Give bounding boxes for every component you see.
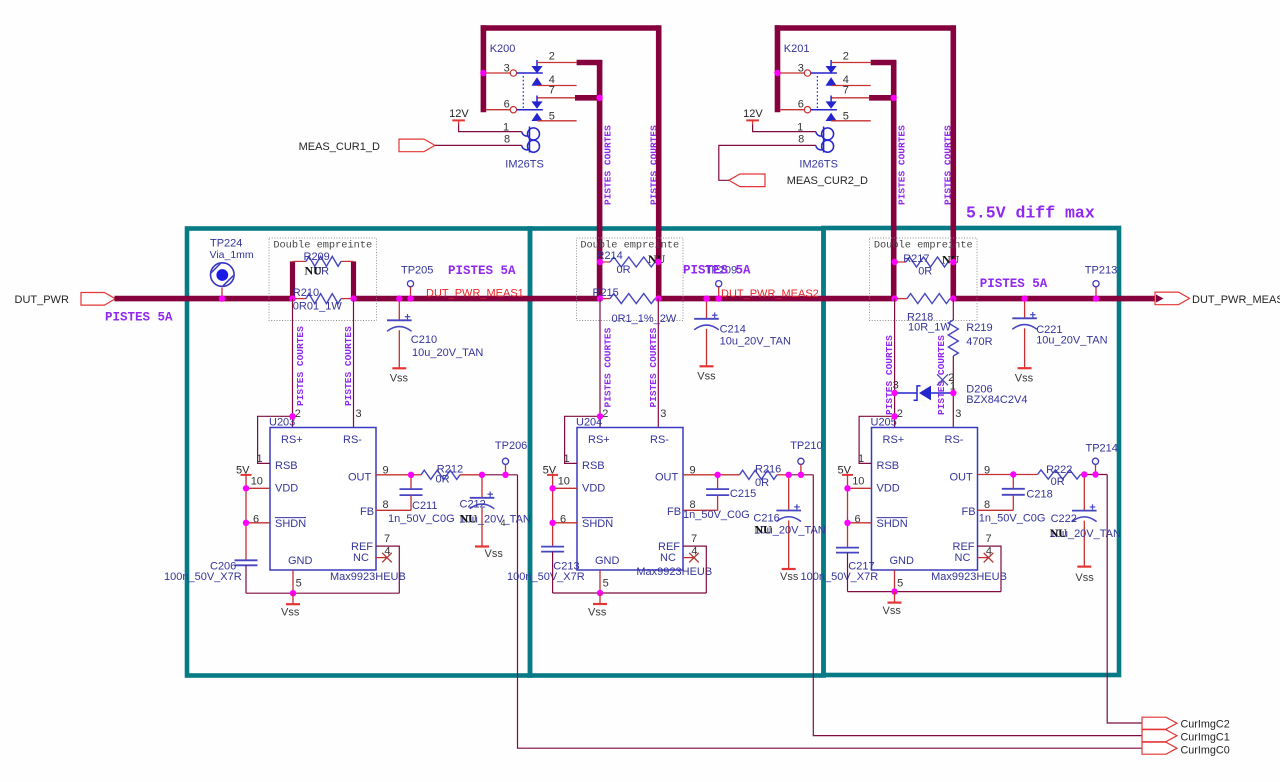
svg-text:6: 6 (560, 513, 566, 525)
svg-text:VDD: VDD (275, 483, 298, 495)
junction R215 left (597, 295, 603, 301)
ground Vss C221 (1018, 367, 1032, 369)
svg-text:3: 3 (798, 63, 804, 75)
svg-text:5: 5 (549, 110, 555, 122)
capacitor C221 (1024, 299, 1026, 319)
relay K201 coil (823, 127, 825, 153)
svg-text:10u_20V_TAN: 10u_20V_TAN (412, 347, 483, 359)
capacitor C210 (398, 299, 400, 321)
wire R219 to D206 (952, 356, 954, 393)
svg-text:R219: R219 (966, 322, 992, 334)
testpoint TP214 (1092, 458, 1098, 464)
svg-text:Max9923HEUB: Max9923HEUB (931, 571, 1007, 583)
svg-text:5: 5 (843, 110, 849, 122)
junction TP210 (798, 472, 804, 478)
svg-text:TP210: TP210 (790, 440, 822, 452)
svg-text:NU: NU (305, 264, 323, 278)
junction GND stage1 (290, 590, 296, 596)
port CurImgC1 (1142, 730, 1177, 742)
junction R210 left (289, 295, 295, 301)
svg-text:FB: FB (962, 506, 976, 518)
ground Vss C222 (1077, 565, 1091, 567)
svg-text:Double empreinte: Double empreinte (874, 240, 973, 252)
junction relay K200 pin3 (480, 70, 486, 76)
wire GND pin stub stage2 (599, 570, 601, 593)
svg-text:Vss: Vss (1075, 572, 1094, 584)
pin NC x-mark stage2 (683, 557, 694, 559)
svg-text:MEAS_CUR2_D: MEAS_CUR2_D (787, 175, 868, 187)
capacitor C212 (NU) (481, 475, 483, 498)
svg-text:100n_50V_X7R: 100n_50V_X7R (507, 571, 585, 583)
capacitor C214 (706, 299, 708, 319)
svg-text:8: 8 (984, 499, 990, 511)
svg-text:7: 7 (691, 533, 697, 545)
zener diode D206 (898, 392, 918, 394)
svg-text:1n_50V_C0G: 1n_50V_C0G (683, 509, 750, 521)
junction C216 (786, 472, 792, 478)
junction SHDN stage3 (844, 520, 850, 526)
wire RS- sense stage1 (353, 299, 355, 428)
junction TP205 (407, 295, 413, 301)
junction R214 right (655, 259, 661, 265)
svg-text:PISTES COURTES: PISTES COURTES (603, 327, 614, 407)
svg-text:5.5V diff max: 5.5V diff max (966, 204, 1095, 223)
relay K201 contact pole1 (830, 60, 832, 66)
wire ground rail stage3 (848, 591, 1002, 593)
relay K200 top bus bar (481, 25, 659, 31)
junction C221 (1021, 295, 1027, 301)
junction TP213 (1093, 295, 1099, 301)
wire SHDN stub stage2 (553, 522, 577, 524)
svg-text:TP213: TP213 (1085, 264, 1117, 276)
svg-text:RS+: RS+ (281, 434, 303, 446)
svg-text:12V: 12V (743, 108, 763, 120)
svg-text:TP224: TP224 (210, 237, 242, 249)
junction C213 top (1010, 471, 1016, 477)
svg-text:RS+: RS+ (883, 434, 905, 446)
svg-text:Vss: Vss (485, 548, 504, 560)
junction GND stage3 (891, 588, 897, 594)
svg-text:PISTES 5A: PISTES 5A (448, 264, 516, 278)
capacitor C222 (NU) (1083, 475, 1085, 511)
svg-text:OUT: OUT (348, 472, 372, 484)
svg-text:SHDN: SHDN (877, 518, 908, 530)
svg-text:C210: C210 (411, 334, 437, 346)
svg-text:C212: C212 (460, 499, 486, 511)
svg-text:10: 10 (558, 475, 570, 487)
svg-text:CurImgC1: CurImgC1 (1181, 732, 1230, 744)
wire SHDN stub stage3 (848, 522, 872, 524)
svg-text:100n_50V_X7R: 100n_50V_X7R (801, 571, 879, 583)
svg-text:100n_50V_X7R: 100n_50V_X7R (164, 571, 242, 583)
svg-text:3: 3 (893, 379, 899, 391)
svg-text:6: 6 (798, 99, 804, 111)
ground Vss stage3 (GND pin) (894, 592, 896, 603)
svg-text:NU: NU (460, 512, 478, 526)
svg-text:R222: R222 (1046, 464, 1072, 476)
wire GND pin stub stage1 (292, 570, 294, 593)
relay K201 pin 5 contact (826, 113, 837, 121)
port CurImgC2 (1142, 717, 1177, 729)
svg-text:PISTES COURTES: PISTES COURTES (648, 327, 659, 407)
svg-text:NU: NU (942, 253, 960, 267)
relay K201 pin 6 (780, 109, 804, 111)
relay K200 contact pole1 (536, 60, 538, 66)
wire C217 to ground rail (847, 553, 849, 592)
svg-text:0R: 0R (436, 474, 450, 486)
wire REF to ground rail stage2 (683, 546, 706, 593)
wire RS+ sense stage2 (599, 299, 601, 428)
svg-text:Max9923HEUB: Max9923HEUB (636, 566, 712, 578)
svg-text:PISTES COURTES: PISTES COURTES (603, 125, 614, 205)
svg-text:OUT: OUT (950, 472, 974, 484)
relay K200 pin 6 (486, 109, 510, 111)
K201 right bus drop to stage3 (950, 25, 956, 298)
junction RSB stage1 (289, 413, 295, 419)
svg-text:IM26TS: IM26TS (799, 159, 838, 171)
wire OUT stage2 (683, 474, 718, 476)
double footprint box stage1 (269, 238, 377, 321)
svg-text:CurImgC0: CurImgC0 (1181, 744, 1230, 756)
svg-text:Vss: Vss (390, 373, 409, 385)
svg-text:10: 10 (251, 475, 263, 487)
relay K200 contact pole2 (536, 96, 538, 102)
wire main bus R215 to R218 (658, 296, 894, 302)
svg-text:DUT_PWR_MEAS2: DUT_PWR_MEAS2 (721, 288, 819, 300)
svg-text:PISTES COURTES: PISTES COURTES (343, 326, 354, 406)
svg-text:2: 2 (948, 372, 954, 384)
blockade box stage2 (teal frame) (530, 229, 824, 676)
svg-text:R209: R209 (304, 251, 330, 263)
op-amp U203 Max9923HEUB body (270, 428, 376, 571)
resistor R219 (948, 320, 958, 356)
svg-text:12V: 12V (449, 108, 469, 120)
port CurImgC0 (1142, 742, 1177, 754)
svg-text:PISTES 5A: PISTES 5A (683, 263, 751, 277)
svg-text:6: 6 (253, 513, 259, 525)
svg-text:8: 8 (798, 134, 804, 146)
junction D206 anode (891, 390, 897, 396)
junction VDD stage3 (844, 485, 850, 491)
junction TP206 (502, 472, 508, 478)
testpoint TP206 (502, 458, 508, 464)
svg-text:TP206: TP206 (495, 440, 527, 452)
svg-text:DUT_PWR_MEAS1: DUT_PWR_MEAS1 (426, 288, 524, 300)
svg-text:RS-: RS- (343, 434, 362, 446)
relay K201 mechanical link (816, 76, 818, 108)
junction relay K201 pin3 (774, 70, 780, 76)
svg-text:NC: NC (660, 552, 676, 564)
wire RS+ sense stage1 (292, 299, 294, 428)
relay K200 pin 5 contact (531, 113, 542, 121)
wire D206 to RS- (952, 393, 954, 428)
wire CurImgC1 run (813, 475, 1142, 736)
svg-text:MEAS_CUR1_D: MEAS_CUR1_D (299, 141, 380, 153)
wire RS- sense stage3 (952, 299, 954, 320)
svg-text:10: 10 (852, 475, 864, 487)
svg-text:0R01_1W: 0R01_1W (293, 301, 343, 313)
capacitor C211 (410, 475, 412, 489)
junction relay K200 pin7 (596, 95, 602, 101)
wire 5V rail stage1 (245, 475, 247, 560)
wire VDD stub stage3 (848, 487, 872, 489)
junction R218 right (950, 295, 956, 301)
relay K201 top bus bar (775, 25, 953, 31)
svg-text:PISTES COURTES: PISTES COURTES (884, 335, 895, 415)
svg-text:OUT: OUT (655, 472, 679, 484)
K200 right bus drop to stage2 (656, 25, 662, 298)
port DUT_PWR_MEAS (1155, 292, 1190, 305)
svg-text:NU: NU (1050, 526, 1068, 540)
testpoint TP209 (716, 281, 722, 287)
resistor R222 (1037, 470, 1080, 479)
svg-text:C211: C211 (412, 500, 437, 512)
svg-text:Double empreinte: Double empreinte (580, 240, 679, 252)
relay K200 pin 3 (486, 72, 510, 74)
ground Vss C210 (392, 367, 406, 369)
svg-text:R215: R215 (593, 287, 619, 299)
resistor R212 (421, 470, 460, 479)
resistor R217 (NU) (895, 261, 906, 263)
svg-text:2: 2 (602, 408, 608, 420)
svg-text:3: 3 (955, 408, 961, 420)
wire ground rail stage2 (553, 592, 707, 594)
svg-text:PISTES 5A: PISTES 5A (105, 311, 173, 325)
svg-text:C214: C214 (720, 323, 746, 335)
wire VDD stub stage2 (553, 487, 577, 489)
svg-text:PISTES COURTES: PISTES COURTES (897, 125, 908, 205)
svg-text:Double empreinte: Double empreinte (273, 240, 372, 252)
capacitor C218 (1012, 475, 1014, 489)
wire RS- sense stage2 (657, 299, 659, 428)
svg-text:RSB: RSB (275, 460, 298, 472)
junction C222 (1081, 471, 1087, 477)
wire CurImgC0 run (518, 475, 1143, 748)
svg-text:PISTES 5A: PISTES 5A (980, 277, 1048, 291)
svg-text:4: 4 (501, 518, 506, 528)
junction C212 (479, 472, 485, 478)
junction relay K201 pin7 (891, 95, 897, 101)
relay K200 coil (529, 127, 531, 153)
svg-text:3: 3 (660, 408, 666, 420)
junction R214 left (597, 259, 603, 265)
wire OUT stage1 (376, 474, 411, 476)
relay K201 pin 3 (780, 72, 804, 74)
svg-text:GND: GND (890, 555, 915, 567)
wire U204 RSB jog (565, 416, 600, 463)
svg-text:RSB: RSB (582, 460, 605, 472)
resistor R209 (NU) (290, 261, 295, 298)
wire OUT net to TP stage3 (1084, 474, 1107, 476)
svg-text:10u_20V_TAN: 10u_20V_TAN (1036, 335, 1107, 347)
junction R210 right (350, 295, 356, 301)
svg-text:Vss: Vss (588, 607, 607, 619)
testpoint TP210 (798, 458, 804, 464)
ground Vss C216 (782, 568, 796, 570)
wire OUT net to TP stage1 (482, 474, 518, 476)
svg-text:2: 2 (897, 408, 903, 420)
svg-text:K200: K200 (490, 43, 516, 55)
junction SHDN stage1 (243, 520, 249, 526)
wire 5V rail stage2 (552, 475, 554, 547)
wire main bus R210 to R215 (354, 296, 601, 302)
wire 12V to coil pin1 (459, 124, 522, 131)
svg-text:Via_1mm: Via_1mm (210, 249, 254, 261)
junction C214 (703, 295, 709, 301)
relay K201 pin 2 (831, 62, 871, 64)
relay K200 pin 7 (537, 97, 575, 99)
wire REF to ground rail stage1 (376, 546, 399, 593)
svg-text:3: 3 (504, 63, 510, 75)
svg-text:1n_50V_C0G: 1n_50V_C0G (388, 513, 455, 525)
junction RSB stage3 (891, 413, 897, 419)
svg-text:FB: FB (667, 506, 681, 518)
svg-text:NC: NC (353, 552, 369, 564)
relay K201 contact pole2 (830, 96, 832, 102)
junction R217 left (891, 259, 897, 265)
capacitor C217 (bypass) (836, 547, 859, 549)
svg-text:2: 2 (549, 50, 555, 62)
resistor R214 (NU) (600, 261, 610, 263)
svg-text:BZX84C2V4: BZX84C2V4 (966, 394, 1027, 406)
double footprint box stage3 (870, 238, 978, 321)
svg-text:NU: NU (754, 522, 772, 536)
svg-text:IM26TS: IM26TS (505, 159, 544, 171)
svg-text:RS-: RS- (945, 434, 964, 446)
wire 5V rail stage3 (847, 475, 849, 548)
pin NC x-mark stage3 (978, 557, 989, 559)
svg-text:470R: 470R (966, 336, 992, 348)
svg-text:R210: R210 (293, 287, 319, 299)
op-amp U204 Max9923HEUB body (577, 428, 683, 571)
wire SHDN stub stage1 (246, 522, 270, 524)
svg-text:VDD: VDD (877, 483, 900, 495)
junction VDD stage1 (243, 485, 249, 491)
svg-text:DUT_PWR_MEAS: DUT_PWR_MEAS (1192, 294, 1280, 306)
junction C210 (396, 295, 402, 301)
resistor R216 (740, 470, 778, 479)
svg-text:Vss: Vss (883, 605, 902, 617)
junction TP224 (219, 295, 225, 301)
testpoint TP213 (1093, 281, 1099, 287)
wire RS+ sense stage3 (894, 299, 896, 428)
relay K201 pin 7 (831, 97, 869, 99)
junction C211 top (408, 472, 414, 478)
wire C213 to ground rail (552, 552, 554, 593)
resistor R215 (shunt) (600, 298, 610, 300)
svg-text:GND: GND (595, 555, 620, 567)
svg-text:5: 5 (296, 577, 302, 589)
ground Vss C212 (475, 545, 489, 547)
wire 12V to coil pin1 (753, 124, 816, 131)
capacitor C216 (NU) (788, 475, 790, 511)
svg-text:5: 5 (897, 577, 903, 589)
svg-text:NC: NC (955, 552, 971, 564)
svg-text:6: 6 (504, 99, 510, 111)
resistor R210 (shunt) (293, 298, 307, 300)
svg-text:TP214: TP214 (1086, 443, 1118, 455)
ground Vss stage1 (GND pin) (292, 593, 294, 604)
svg-text:Vss: Vss (1015, 373, 1034, 385)
svg-text:PISTES COURTES: PISTES COURTES (295, 326, 306, 406)
double footprint box stage2 (577, 238, 684, 321)
wire TP224 to bus (221, 288, 223, 299)
svg-text:3: 3 (356, 408, 362, 420)
svg-text:7: 7 (986, 533, 992, 545)
svg-text:0R: 0R (755, 477, 769, 489)
svg-text:0R: 0R (617, 264, 631, 276)
wire VDD stub stage1 (246, 487, 270, 489)
svg-text:8: 8 (383, 499, 389, 511)
wire U205 RSB jog (859, 416, 895, 463)
wire REF to ground rail stage3 (978, 546, 1002, 592)
svg-text:TP205: TP205 (401, 264, 433, 276)
svg-text:7: 7 (843, 85, 849, 97)
svg-text:Vss: Vss (697, 370, 716, 382)
svg-text:7: 7 (549, 85, 555, 97)
svg-text:0R: 0R (1051, 476, 1065, 488)
svg-text:CurImgC2: CurImgC2 (1181, 719, 1230, 731)
junction D206 cathode (950, 390, 956, 396)
relay K200 pin2/pin7 bus drop (597, 60, 603, 298)
testpoint TP205 (407, 281, 413, 287)
wire U203 RSB jog (258, 416, 293, 463)
blockade box stage3 (teal frame) (824, 228, 1120, 675)
wire OUT net to TP stage2 (789, 474, 814, 476)
capacitor C206 (bypass) (235, 559, 258, 561)
svg-text:Vss: Vss (281, 607, 300, 619)
relay K200 mechanical link (522, 76, 524, 108)
svg-text:C218: C218 (1026, 488, 1052, 500)
junction TP214 (1092, 471, 1098, 477)
svg-text:0R: 0R (918, 266, 932, 278)
capacitor C215 (717, 475, 719, 489)
wire OUT stage3 (978, 474, 1014, 476)
relay K201 pin2/pin7 bus drop (891, 60, 897, 298)
resistor R218 (shunt) (895, 298, 907, 300)
wire MEAS_CUR1_D to K200 coil pin8 (435, 144, 522, 146)
svg-text:7: 7 (384, 533, 390, 545)
wire main bus R218 to DUT_PWR_MEAS (953, 296, 1156, 302)
svg-text:2: 2 (843, 50, 849, 62)
op-amp U205 Max9923HEUB body (872, 428, 978, 571)
svg-text:5: 5 (603, 577, 609, 589)
svg-text:R216: R216 (755, 464, 781, 476)
svg-text:Max9923HEUB: Max9923HEUB (330, 571, 406, 583)
wire K201 coil pin8 to MEAS_CUR2_D (719, 145, 816, 180)
junction RSB stage2 (597, 413, 603, 419)
svg-text:RSB: RSB (877, 460, 900, 472)
wire ground rail stage1 (246, 592, 399, 594)
svg-text:8: 8 (504, 134, 510, 146)
svg-text:VDD: VDD (582, 483, 605, 495)
junction R217 right (950, 259, 956, 265)
svg-text:1n_50V_C0G: 1n_50V_C0G (979, 513, 1046, 525)
wire main bus DUT_PWR to R210 (115, 296, 293, 302)
svg-text:10u_20V_TAN: 10u_20V_TAN (720, 335, 791, 347)
ground Vss stage2 (GND pin) (599, 593, 601, 604)
svg-text:FB: FB (360, 506, 374, 518)
capacitor C213 (bypass) (541, 546, 564, 548)
svg-text:0R1_1%_2W: 0R1_1%_2W (612, 313, 677, 325)
junction C212 top (714, 472, 720, 478)
junction TP209 (716, 295, 722, 301)
svg-text:DUT_PWR: DUT_PWR (15, 294, 69, 306)
junction VDD stage2 (549, 485, 555, 491)
wire GND pin stub stage3 (894, 570, 896, 592)
ground Vss C214 (700, 365, 714, 367)
svg-text:2: 2 (295, 408, 301, 420)
